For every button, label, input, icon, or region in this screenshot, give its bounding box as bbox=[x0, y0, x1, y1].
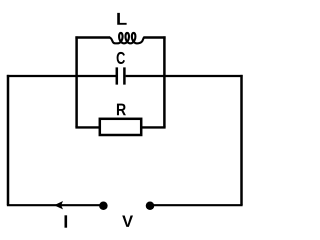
current arrow I (pointing left) bbox=[54, 201, 63, 209]
wire: outer left vertical bbox=[7, 75, 10, 205]
capacitor C plates bbox=[117, 67, 125, 84]
wire: capacitor branch right lead bbox=[126, 75, 243, 77]
label V (voltage across terminals) bbox=[122, 216, 133, 227]
wire: bottom right segment bbox=[150, 204, 243, 206]
wire: outer right vertical bbox=[240, 75, 243, 205]
wire: inductor branch left lead bbox=[75, 36, 110, 38]
wire: resistor branch left lead bbox=[75, 126, 99, 128]
label L bbox=[117, 13, 126, 25]
label I bbox=[65, 215, 68, 227]
wire: capacitor branch left lead (main horizontal) bbox=[7, 75, 116, 77]
label C bbox=[117, 52, 125, 64]
node: right terminal dot bbox=[146, 201, 155, 210]
inductor L coil bbox=[110, 33, 144, 44]
wire: left bus vertical (joins L, C, R branches) bbox=[75, 36, 78, 127]
resistor R body bbox=[100, 119, 141, 135]
label R bbox=[117, 104, 126, 116]
wire: inductor branch right lead bbox=[144, 36, 166, 38]
wire: resistor branch right lead bbox=[141, 126, 165, 128]
node: left terminal dot bbox=[99, 201, 108, 210]
wire: right bus vertical (joins L, C, R branches) bbox=[163, 36, 166, 127]
wire: bottom left segment (with current arrow) bbox=[7, 204, 104, 206]
